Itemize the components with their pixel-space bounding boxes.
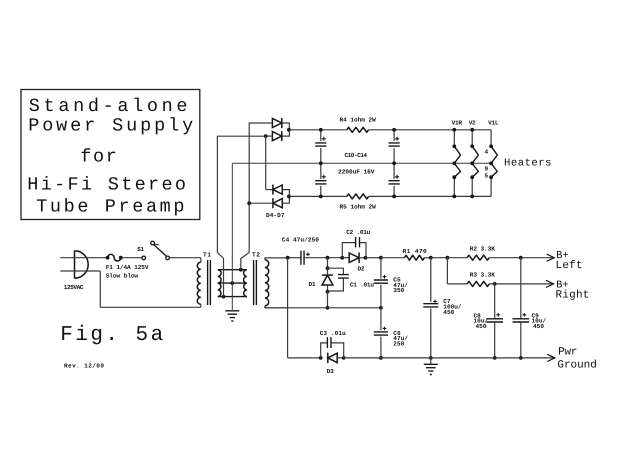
diode D1 (vertical) <box>322 268 333 292</box>
node bottom rail junction <box>222 295 226 299</box>
wire lower-middle rail <box>265 307 381 309</box>
capacitor C9 <box>513 258 530 358</box>
ground below transformer <box>225 283 239 321</box>
label B+ left line2 <box>556 260 583 272</box>
heater element V1L <box>489 130 497 197</box>
label C7 line1 <box>443 298 451 305</box>
svg-text:Slow blow: Slow blow <box>106 272 139 279</box>
wire D5 anode feed <box>266 135 272 137</box>
node D1 C1 bottom <box>326 290 330 294</box>
svg-text:C3 .01u: C3 .01u <box>320 330 346 337</box>
wire D6 D7 anode join <box>282 190 289 204</box>
label C7 line3 <box>443 309 454 316</box>
wire AC neutral down <box>99 271 101 307</box>
label Ground <box>557 359 596 371</box>
arrow B+ right <box>546 280 554 287</box>
svg-text:R3 3.3K: R3 3.3K <box>470 271 495 278</box>
svg-text:250: 250 <box>393 341 404 348</box>
wire D2 to C2 right <box>359 257 365 259</box>
transformer T1 primary lead top <box>200 258 202 263</box>
transformer T2 primary winding <box>244 270 247 297</box>
transformer T2 secondary lead bottom <box>265 306 288 308</box>
wire bottom rail left <box>288 357 321 359</box>
label C4 <box>282 236 319 243</box>
label C6 line3 <box>393 341 404 348</box>
wire ground-return drop <box>287 258 289 358</box>
label B+ right line2 <box>556 289 590 301</box>
wire D4 D5 cathode join <box>282 123 289 136</box>
capacitor C5 <box>374 258 388 308</box>
label C8 line3 <box>476 323 487 330</box>
transformer T2 secondary winding <box>265 260 269 306</box>
wire leg2 to D7 <box>249 202 273 204</box>
node col2 top <box>392 128 396 132</box>
svg-text:125VAC: 125VAC <box>64 284 84 291</box>
resistor R3 <box>467 281 489 286</box>
arrow B+ left <box>547 254 555 261</box>
label F1 <box>106 264 149 271</box>
wire heater bottom rail <box>289 195 491 197</box>
wire rail D2 to C5 <box>366 257 381 259</box>
node col2 bottom <box>392 195 396 199</box>
transformer T2 core <box>254 260 257 305</box>
wire AC neutral prong <box>60 270 100 272</box>
node col1 mid <box>319 161 323 165</box>
label C9 line2 <box>532 318 547 325</box>
transformer T1 secondary winding <box>218 270 221 297</box>
svg-text:4: 4 <box>485 149 489 156</box>
wire D1 top <box>327 258 329 269</box>
label D2 <box>358 266 365 273</box>
resistor R5 <box>347 194 369 199</box>
label C6 line1 <box>393 330 401 337</box>
label R1 <box>403 248 427 255</box>
wire R2 to C9 <box>489 257 521 259</box>
capacitor C8 <box>486 284 503 358</box>
svg-text:2200uF 16V: 2200uF 16V <box>338 169 375 176</box>
revision label <box>64 363 104 370</box>
wire AC hot prong <box>60 257 107 259</box>
node D1 C1 top <box>326 266 330 270</box>
wire heater top rail <box>289 129 491 131</box>
wire D1 to lower rail <box>327 292 329 308</box>
ground at C7 <box>424 358 438 375</box>
capacitor C7 <box>423 258 438 358</box>
wire C9 to B+ left arrow <box>521 257 554 259</box>
label D1 <box>309 281 316 288</box>
node D1 branch <box>326 256 330 260</box>
label V2 <box>469 120 476 127</box>
label T2 <box>252 252 260 259</box>
label D3 <box>327 368 334 375</box>
title text line 5 <box>36 196 184 217</box>
svg-text:for: for <box>80 146 117 167</box>
svg-text:T1: T1 <box>203 252 211 259</box>
label Heaters <box>504 157 552 169</box>
node top rail junction <box>239 268 243 272</box>
label C3 <box>320 330 346 337</box>
label B+ right line1 <box>556 280 569 292</box>
capacitor C1 loop <box>328 268 349 291</box>
label S1 <box>137 246 144 253</box>
svg-text:9: 9 <box>485 165 489 172</box>
wire switch to T1 <box>169 257 200 259</box>
svg-text:C10-C14: C10-C14 <box>345 152 368 159</box>
svg-text:V2: V2 <box>469 120 476 127</box>
pin number 9 <box>485 165 489 172</box>
node R3 branch <box>446 256 450 260</box>
svg-text:T2: T2 <box>252 252 260 259</box>
node C8 bottom <box>493 356 497 360</box>
transformer T1 core <box>208 260 211 305</box>
wire AC leg 2 riser <box>241 123 273 270</box>
pin number 4 <box>485 149 489 156</box>
wire C7 to R3 branch <box>431 257 448 259</box>
wire winding bottom rail <box>218 296 247 298</box>
node C3 left <box>319 356 323 360</box>
svg-text:C2 .01u: C2 .01u <box>346 229 370 236</box>
wire to R2 <box>447 257 467 259</box>
svg-text:D1: D1 <box>309 281 316 288</box>
figure label <box>60 324 163 347</box>
arrow Pwr Ground <box>547 354 555 361</box>
svg-text:Rev. 12/00: Rev. 12/00 <box>64 363 104 370</box>
svg-text:D3: D3 <box>327 368 334 375</box>
svg-text:Heaters: Heaters <box>504 157 552 169</box>
transformer T2 secondary lead top <box>265 258 288 260</box>
svg-text:R2 3.3K: R2 3.3K <box>470 245 495 252</box>
node C7 bottom <box>429 356 433 360</box>
svg-text:V1R: V1R <box>452 120 463 127</box>
node C9 bottom <box>519 356 523 360</box>
label 125VAC <box>64 284 84 291</box>
label R4 <box>340 117 377 124</box>
diode D6 <box>273 185 282 195</box>
svg-text:S1: S1 <box>137 246 144 253</box>
svg-text:350: 350 <box>393 287 404 294</box>
wire R3 to arrow <box>489 283 553 285</box>
wire T2 top to C4 <box>288 257 301 259</box>
svg-text:450: 450 <box>533 323 544 330</box>
node C9 branch <box>519 256 523 260</box>
label V1L <box>488 120 499 127</box>
wire winding top rail <box>218 269 247 271</box>
node C2 right <box>364 256 368 260</box>
wire winding middle rail <box>218 282 247 284</box>
node C6 bottom <box>379 356 383 360</box>
svg-text:Tube Preamp: Tube Preamp <box>36 196 184 217</box>
label C8 line2 <box>474 318 489 325</box>
node lower rail at C5C6 <box>379 306 383 310</box>
capacitor C3 bypass loop <box>321 337 344 358</box>
svg-text:450: 450 <box>443 309 454 316</box>
node D1 on lower rail <box>326 306 330 310</box>
svg-text:R1 470: R1 470 <box>403 248 427 255</box>
wire R1 to C7 <box>424 257 430 259</box>
label C1 <box>350 281 374 288</box>
svg-text:V1L: V1L <box>488 120 499 127</box>
wire bus to D6 <box>266 136 273 190</box>
node AC leg 2 to D7 <box>247 201 251 205</box>
label C2 <box>346 229 370 236</box>
heater element V2 <box>470 128 478 198</box>
transformer T1 primary lead bottom <box>200 304 202 307</box>
title box <box>21 90 200 220</box>
capacitor C10-C14 column 1 lower <box>315 163 326 196</box>
node col1 bottom <box>319 195 323 199</box>
svg-text:Fig. 5a: Fig. 5a <box>60 324 163 347</box>
node AC leg 1 to D6 bus <box>264 134 268 138</box>
svg-text:450: 450 <box>476 323 487 330</box>
diode D3 <box>328 353 337 363</box>
label C8 line1 <box>474 313 482 320</box>
label C7 line2 <box>443 304 462 311</box>
label C5 line2 <box>393 282 408 289</box>
svg-text:C1 .01u: C1 .01u <box>350 281 374 288</box>
heater element V1R <box>452 128 460 198</box>
label C9 line1 <box>532 313 540 320</box>
label R5 <box>340 204 377 211</box>
wire R3 drop <box>447 258 467 284</box>
capacitor C4 <box>301 251 310 265</box>
node col2 mid <box>392 161 396 165</box>
node C3 right <box>342 356 346 360</box>
diode D4 <box>272 118 281 128</box>
svg-text:D4-D7: D4-D7 <box>266 212 285 219</box>
svg-text:R5 1ohm 2W: R5 1ohm 2W <box>340 204 377 211</box>
capacitor C10-C14 column 2 lower <box>389 163 400 196</box>
label D4-D7 <box>266 212 285 219</box>
switch S1 <box>142 241 170 259</box>
wire bottom rail mid <box>344 357 555 359</box>
label C5 line1 <box>393 276 401 283</box>
title text line 3 <box>80 146 117 167</box>
node C2 left <box>340 256 344 260</box>
wire rail C5 to R1 <box>381 257 405 259</box>
label R3 <box>470 271 495 278</box>
svg-text:5: 5 <box>485 173 489 180</box>
svg-text:D2: D2 <box>358 266 365 273</box>
label Pwr <box>558 347 577 359</box>
wire AC neutral to T1 <box>100 306 201 308</box>
svg-text:Right: Right <box>556 289 590 301</box>
wire C4 to D1 node <box>304 257 342 259</box>
label slow blow <box>106 272 139 279</box>
capacitor C10-C14 column 2 upper <box>389 130 400 164</box>
node C8 branch <box>493 282 497 286</box>
capacitor C6 <box>374 308 388 358</box>
label B+ left line1 <box>556 250 569 262</box>
svg-text:R4 1ohm 2W: R4 1ohm 2W <box>340 117 377 124</box>
label V1R <box>452 120 463 127</box>
svg-text:C4 47u/250: C4 47u/250 <box>282 236 319 243</box>
label C10-C14 <box>345 152 368 159</box>
node middle rail junction <box>230 281 234 285</box>
pin number 5 <box>485 173 489 180</box>
svg-text:Pwr: Pwr <box>558 347 577 359</box>
wire fuse to switch <box>121 257 142 259</box>
wire heater center rail <box>232 162 491 164</box>
diode D2 <box>349 253 359 263</box>
node heater plus output <box>287 128 291 132</box>
label C6 line2 <box>393 335 408 342</box>
title text line 1 <box>29 96 188 117</box>
label 2200uF 16V <box>338 169 375 176</box>
node C7 branch <box>429 256 433 260</box>
node main rail to ground-return <box>286 256 290 260</box>
node C5 branch <box>379 256 383 260</box>
node heater minus output <box>287 195 291 199</box>
svg-text:Left: Left <box>556 260 583 272</box>
capacitor C10-C14 column 1 upper <box>315 130 326 164</box>
AC plug P1 <box>75 251 89 278</box>
resistor R1 <box>404 255 424 260</box>
label T1 <box>203 252 211 259</box>
fuse F1 <box>106 254 123 261</box>
resistor R4 <box>347 127 369 132</box>
transformer T1 primary winding <box>197 262 200 304</box>
wire D3 to node <box>337 357 344 359</box>
title text line 4 <box>27 174 186 195</box>
title text line 2 <box>28 116 193 137</box>
svg-text:F1 1/4A 125V: F1 1/4A 125V <box>106 264 149 271</box>
wire heater center tap riser <box>231 163 233 283</box>
label R2 <box>470 245 495 252</box>
node col1 top <box>319 128 323 132</box>
svg-text:Stand-alone: Stand-alone <box>29 96 188 117</box>
svg-text:Ground: Ground <box>557 359 596 371</box>
diode D5 <box>272 131 281 141</box>
wire AC leg 1 riser <box>217 136 266 296</box>
wire D2 lead left <box>342 257 349 259</box>
label C9 line3 <box>533 323 544 330</box>
label C5 line3 <box>393 287 404 294</box>
capacitor C2 bypass loop <box>342 237 366 258</box>
resistor R2 <box>467 255 489 260</box>
diode D7 <box>273 198 282 208</box>
